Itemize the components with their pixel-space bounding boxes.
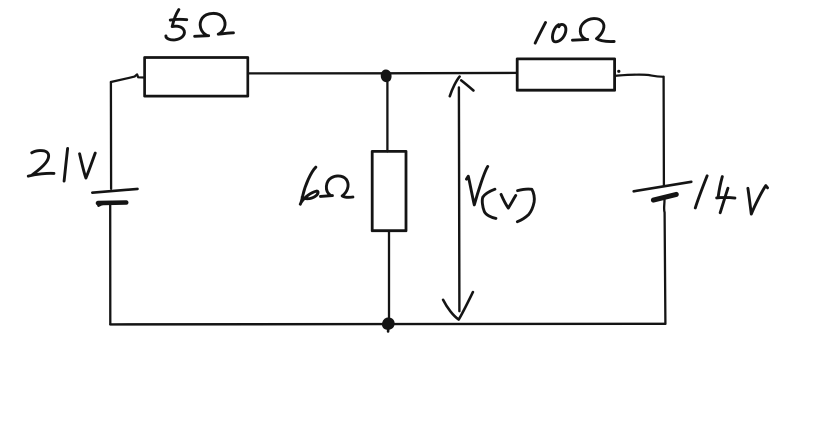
label B2 value 1 <box>695 176 707 208</box>
battery B1 short plate <box>98 200 126 205</box>
label R1 value 5 <box>166 10 185 40</box>
resistor R2 6ohm body <box>372 151 406 230</box>
label Vv bracket left <box>482 189 496 218</box>
battery B2 short plate <box>653 194 676 200</box>
arrow Vv head bottom <box>443 292 473 319</box>
resistor R3 10ohm body <box>517 59 614 90</box>
wire: R2 bottom to bottom node <box>388 231 390 324</box>
wire: left vertical lower (B1 to bottom rail) <box>109 205 111 325</box>
wire: battery B1 top to resistor R1 left (with kink) <box>111 74 145 82</box>
node A (top junction dot) <box>382 71 390 81</box>
resistor R1 5ohm body <box>145 58 248 97</box>
label R3 value 0 <box>553 24 566 41</box>
battery B1 long plate <box>92 189 137 193</box>
label Vv letter v small <box>501 194 516 208</box>
dot: stray mark at R3 right <box>617 70 620 73</box>
battery B2 long plate <box>634 182 692 192</box>
arrow Vv shaft <box>458 88 461 312</box>
label R2 unit ohm <box>321 194 333 198</box>
label R3 unit ohm <box>573 38 588 42</box>
label R2 value 6 <box>300 167 318 204</box>
label Vv letter V <box>467 167 488 205</box>
label R3 value 1 <box>535 23 545 44</box>
label B1 unit V <box>80 153 96 178</box>
wire: right vertical upper (to battery B2) <box>662 77 665 187</box>
wire: top node to resistor R3 left <box>385 72 518 75</box>
wire: right vertical lower (B2 to bottom rail) with curl <box>664 198 665 324</box>
label B1 value 1 <box>64 149 68 182</box>
wire: top node down to R2 top <box>386 78 388 152</box>
wire: left vertical upper (R1 to battery B1) <box>110 82 112 189</box>
arrow Vv head top <box>450 77 460 97</box>
label R1 unit ohm <box>195 34 209 37</box>
wire: R1 right to top node <box>248 72 385 74</box>
label B1 value 2 <box>32 151 49 175</box>
wire: R3 right to right vertical (wavy) <box>615 75 664 77</box>
wire: bottom rail <box>110 323 665 326</box>
label B2 unit V <box>748 186 768 215</box>
node B (bottom junction dot) <box>383 319 393 329</box>
label Vv bracket right <box>517 189 534 222</box>
label B2 value 4 <box>717 177 735 213</box>
